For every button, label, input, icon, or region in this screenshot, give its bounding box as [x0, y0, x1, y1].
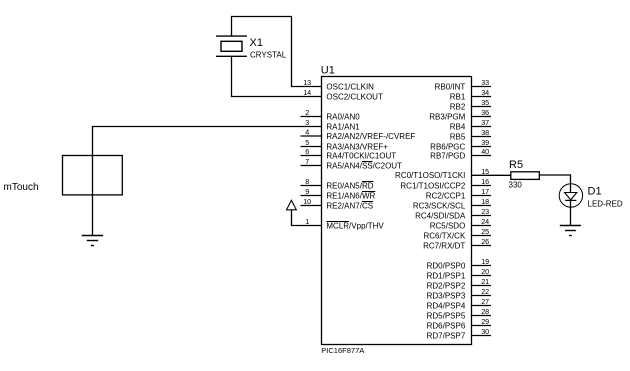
- pin 22 RD3/PSP3: [427, 287, 491, 300]
- svg-text:RD4/PSP4: RD4/PSP4: [427, 301, 466, 310]
- svg-text:10: 10: [303, 197, 311, 206]
- svg-text:OSC1/CLKIN: OSC1/CLKIN: [326, 82, 374, 91]
- svg-text:33: 33: [481, 78, 489, 87]
- pin 14 OSC2/CLKOUT: [303, 88, 383, 101]
- svg-text:RD7/PSP7: RD7/PSP7: [427, 331, 466, 340]
- ground (mTouch): [82, 236, 103, 246]
- svg-text:37: 37: [481, 118, 489, 127]
- svg-text:14: 14: [303, 88, 311, 97]
- svg-text:RC4/SDI/SDA: RC4/SDI/SDA: [415, 211, 466, 220]
- svg-text:RD0/PSP0: RD0/PSP0: [427, 261, 466, 270]
- svg-text:1: 1: [305, 217, 309, 226]
- pin 36 RB3/PGM: [429, 108, 491, 121]
- mTouch pad: [63, 156, 123, 195]
- svg-text:36: 36: [481, 108, 489, 117]
- svg-text:MCLR/Vpp/THV: MCLR/Vpp/THV: [326, 221, 384, 230]
- svg-text:RD5/PSP5: RD5/PSP5: [427, 311, 466, 320]
- svg-text:X1: X1: [250, 37, 263, 49]
- svg-text:15: 15: [481, 167, 489, 176]
- svg-text:8: 8: [305, 177, 309, 186]
- svg-text:RC2/CCP1: RC2/CCP1: [426, 191, 466, 200]
- svg-text:38: 38: [481, 128, 489, 137]
- pin 25 RC6/TX/CK: [424, 227, 491, 240]
- svg-text:RA2/AN2/VREF-/CVREF: RA2/AN2/VREF-/CVREF: [326, 132, 415, 141]
- svg-text:RA3/AN3/VREF+: RA3/AN3/VREF+: [326, 142, 388, 151]
- pin 13 OSC1/CLKIN: [303, 78, 374, 91]
- pin 19 RD0/PSP0: [427, 257, 491, 270]
- pin 2 RA0/AN0: [301, 108, 361, 121]
- svg-text:13: 13: [303, 78, 311, 87]
- svg-text:26: 26: [481, 237, 489, 246]
- pin 10 RE2/AN7/CS: [301, 197, 374, 210]
- svg-text:RA5/AN4/SS/C2OUT: RA5/AN4/SS/C2OUT: [326, 161, 402, 170]
- svg-text:17: 17: [481, 187, 489, 196]
- svg-text:RD6/PSP6: RD6/PSP6: [427, 321, 466, 330]
- pin 30 RD7/PSP7: [427, 327, 491, 340]
- pin 6 RA4/T0CKI/C1OUT: [301, 147, 397, 160]
- svg-text:29: 29: [481, 317, 489, 326]
- wire: terminal down: [291, 210, 293, 226]
- crystal X1: [216, 36, 247, 56]
- svg-text:2: 2: [305, 108, 309, 117]
- svg-text:RB2: RB2: [450, 102, 466, 111]
- wire: LED to ground: [570, 200, 572, 225]
- wire: R5 to LED corner: [539, 174, 570, 176]
- pin 28 RD5/PSP5: [427, 307, 491, 320]
- wire: down into LED: [570, 174, 572, 192]
- pin 4 RA2/AN2/VREF-/CVREF: [301, 128, 416, 141]
- svg-text:D1: D1: [588, 186, 602, 198]
- pin 40 RB7/PGD: [430, 147, 491, 160]
- svg-text:4: 4: [305, 128, 309, 137]
- pin 35 RB2: [450, 98, 491, 111]
- LED D1: [559, 184, 582, 207]
- svg-text:20: 20: [481, 267, 489, 276]
- pin 23 RC4/SDI/SDA: [415, 207, 491, 220]
- pin 15 RC0/T1OSO/T1CKI: [395, 167, 489, 180]
- svg-text:RC3/SCK/SCL: RC3/SCK/SCL: [413, 201, 466, 210]
- svg-text:mTouch: mTouch: [4, 182, 39, 193]
- wire: mTouch vertical: [92, 126, 94, 236]
- svg-text:RA0/AN0: RA0/AN0: [326, 112, 360, 121]
- pin 3 RA1/AN1: [305, 118, 360, 131]
- svg-text:RB5: RB5: [450, 132, 466, 141]
- svg-text:CRYSTAL: CRYSTAL: [250, 51, 287, 60]
- pin 5 RA3/AN3/VREF+: [301, 138, 389, 151]
- svg-text:6: 6: [305, 147, 309, 156]
- wire: pin13 to chip: [291, 86, 322, 88]
- pin 21 RD2/PSP2: [427, 277, 491, 290]
- svg-text:RB3/PGM: RB3/PGM: [429, 112, 465, 121]
- svg-text:34: 34: [481, 88, 489, 97]
- svg-text:OSC2/CLKOUT: OSC2/CLKOUT: [326, 92, 383, 101]
- wire: crystal left upper: [231, 16, 233, 36]
- svg-text:R5: R5: [509, 159, 523, 171]
- svg-text:RC7/RX/DT: RC7/RX/DT: [423, 241, 465, 250]
- svg-text:RE1/AN6/WR: RE1/AN6/WR: [326, 191, 375, 200]
- pin 8 RE0/AN5/RD: [301, 177, 374, 190]
- svg-text:39: 39: [481, 138, 489, 147]
- pin 7 RA5/AN4/SS/C2OUT: [301, 157, 403, 170]
- wire: pin3 to mTouch: [93, 126, 322, 128]
- svg-text:35: 35: [481, 98, 489, 107]
- svg-text:RD2/PSP2: RD2/PSP2: [427, 281, 466, 290]
- svg-text:30: 30: [481, 327, 489, 336]
- svg-text:3: 3: [305, 118, 309, 127]
- svg-text:23: 23: [481, 207, 489, 216]
- input terminal (triangle) at MCLR: [287, 200, 297, 210]
- svg-text:19: 19: [481, 257, 489, 266]
- svg-text:RA4/T0CKI/C1OUT: RA4/T0CKI/C1OUT: [326, 151, 396, 160]
- pin 24 RC5/SDO: [430, 217, 491, 230]
- pin 26 RC7/RX/DT: [423, 237, 491, 250]
- svg-text:28: 28: [481, 307, 489, 316]
- svg-text:24: 24: [481, 217, 489, 226]
- resistor R5: [511, 172, 540, 180]
- svg-text:RC1/T1OSI/CCP2: RC1/T1OSI/CCP2: [400, 181, 465, 190]
- svg-text:16: 16: [481, 177, 489, 186]
- svg-text:RB1: RB1: [450, 92, 466, 101]
- pin 16 RC1/T1OSI/CCP2: [400, 177, 491, 190]
- svg-text:RE2/AN7/CS: RE2/AN7/CS: [326, 201, 373, 210]
- svg-text:330: 330: [509, 181, 523, 190]
- pin 20 RD1/PSP1: [427, 267, 491, 280]
- svg-text:7: 7: [305, 157, 309, 166]
- pin 1 MCLR/Vpp/THV: [305, 217, 384, 230]
- pin 9 RE1/AN6/WR: [301, 187, 376, 200]
- svg-text:LED-RED: LED-RED: [588, 199, 623, 208]
- pin 37 RB4: [450, 118, 491, 131]
- svg-text:RA1/AN1: RA1/AN1: [326, 122, 360, 131]
- svg-text:RB6/PGC: RB6/PGC: [430, 142, 465, 151]
- pin 33 RB0/INT: [435, 78, 491, 91]
- wire: crystal bottom vertical: [231, 56, 233, 96]
- svg-text:RB4: RB4: [450, 122, 466, 131]
- pin 29 RD6/PSP6: [427, 317, 491, 330]
- svg-text:RB0/INT: RB0/INT: [435, 82, 466, 91]
- pin 27 RD4/PSP4: [427, 297, 491, 310]
- svg-text:9: 9: [305, 187, 309, 196]
- svg-text:27: 27: [481, 297, 489, 306]
- svg-text:25: 25: [481, 227, 489, 236]
- svg-text:U1: U1: [321, 64, 335, 76]
- ground (LED): [560, 226, 581, 236]
- pin 39 RB6/PGC: [430, 138, 491, 151]
- wire: pin1 to chip: [291, 225, 322, 227]
- pin 17 RC2/CCP1: [426, 187, 491, 200]
- svg-text:PIC16F877A: PIC16F877A: [321, 346, 364, 355]
- pin 18 RC3/SCK/SCL: [413, 197, 491, 210]
- svg-text:RC0/T1OSO/T1CKI: RC0/T1OSO/T1CKI: [395, 171, 465, 180]
- wire: pin14 to chip: [231, 96, 322, 98]
- svg-text:40: 40: [481, 147, 489, 156]
- wire: pin15 to R5: [472, 174, 511, 176]
- pin 38 RB5: [450, 128, 491, 141]
- svg-text:18: 18: [481, 197, 489, 206]
- svg-text:RD1/PSP1: RD1/PSP1: [427, 271, 466, 280]
- wire: crystal loop top: [232, 16, 292, 18]
- svg-text:RC6/TX/CK: RC6/TX/CK: [424, 231, 466, 240]
- svg-text:RE0/AN5/RD: RE0/AN5/RD: [326, 181, 373, 190]
- pin 34 RB1: [450, 88, 491, 101]
- svg-text:RD3/PSP3: RD3/PSP3: [427, 291, 466, 300]
- svg-text:22: 22: [481, 287, 489, 296]
- svg-text:RB7/PGD: RB7/PGD: [430, 151, 465, 160]
- IC U1 PIC16F877A body: [322, 77, 472, 345]
- svg-text:21: 21: [481, 277, 489, 286]
- wire: OSC1 right vertical: [291, 16, 293, 87]
- svg-text:RC5/SDO: RC5/SDO: [430, 221, 466, 230]
- svg-text:5: 5: [305, 138, 309, 147]
